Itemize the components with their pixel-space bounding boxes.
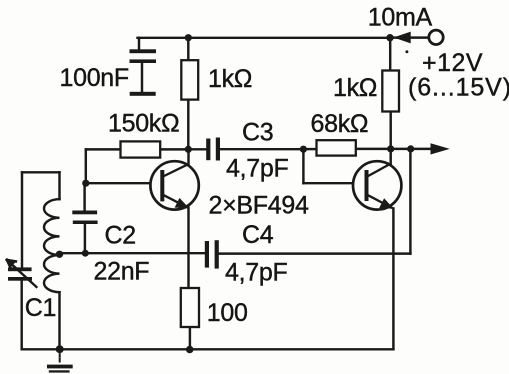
svg-text:1kΩ: 1kΩ <box>208 65 252 93</box>
svg-text:100nF: 100nF <box>60 64 129 92</box>
svg-text:(6...15V): (6...15V) <box>408 74 509 102</box>
svg-text:C4: C4 <box>242 221 274 249</box>
svg-text:2×BF494: 2×BF494 <box>209 192 309 220</box>
svg-text:C3: C3 <box>242 118 273 146</box>
svg-text:68kΩ: 68kΩ <box>311 110 369 138</box>
svg-text:C1: C1 <box>25 294 56 322</box>
svg-text:22nF: 22nF <box>94 258 150 286</box>
svg-text:10mA: 10mA <box>368 3 433 31</box>
svg-text:C2: C2 <box>105 222 136 250</box>
svg-text:150kΩ: 150kΩ <box>108 110 179 138</box>
svg-text:4,7pF: 4,7pF <box>226 155 288 183</box>
svg-text:4,7pF: 4,7pF <box>225 259 287 287</box>
svg-text:1kΩ: 1kΩ <box>333 74 377 102</box>
svg-text:100: 100 <box>207 299 248 327</box>
